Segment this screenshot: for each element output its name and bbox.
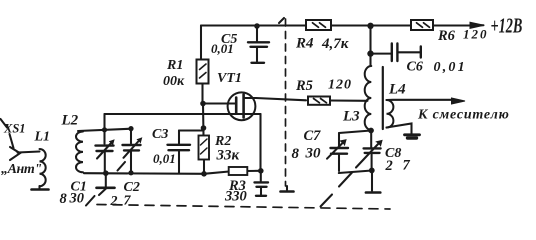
svg-text:2: 2 — [110, 194, 118, 209]
svg-text:120: 120 — [328, 78, 352, 93]
svg-text:L2: L2 — [61, 113, 79, 129]
svg-text:120: 120 — [463, 27, 489, 42]
svg-text:XS1: XS1 — [3, 122, 26, 136]
svg-text:0,01: 0,01 — [153, 151, 176, 166]
svg-text:0,01: 0,01 — [211, 41, 234, 56]
svg-text:L3: L3 — [342, 109, 360, 125]
svg-text:R1: R1 — [166, 58, 183, 73]
svg-text:VT1: VT1 — [217, 71, 242, 86]
svg-text:330: 330 — [224, 189, 247, 205]
svg-text:„Ант": „Ант" — [1, 162, 42, 177]
svg-text:C3: C3 — [152, 127, 168, 142]
svg-text:00к: 00к — [163, 74, 185, 89]
svg-text:33к: 33к — [216, 148, 240, 164]
svg-text:30: 30 — [69, 191, 85, 207]
svg-text:L4: L4 — [388, 82, 406, 98]
svg-text:R6: R6 — [437, 28, 456, 44]
svg-text:8: 8 — [292, 146, 300, 162]
svg-text:R4: R4 — [295, 36, 314, 52]
svg-text:L1: L1 — [34, 130, 51, 145]
svg-text:К смесителю: К смесителю — [417, 108, 510, 123]
svg-text:7: 7 — [124, 194, 132, 209]
svg-text:7: 7 — [403, 158, 411, 174]
svg-text:2: 2 — [385, 158, 393, 174]
svg-text:+12В: +12В — [491, 14, 523, 37]
svg-text:C7: C7 — [304, 128, 322, 144]
svg-text:4,7к: 4,7к — [321, 36, 349, 52]
svg-text:8: 8 — [60, 191, 68, 207]
svg-text:30: 30 — [305, 146, 322, 162]
svg-text:C6: C6 — [407, 60, 423, 75]
svg-text:R5: R5 — [295, 78, 313, 94]
svg-text:0,01: 0,01 — [434, 60, 467, 75]
